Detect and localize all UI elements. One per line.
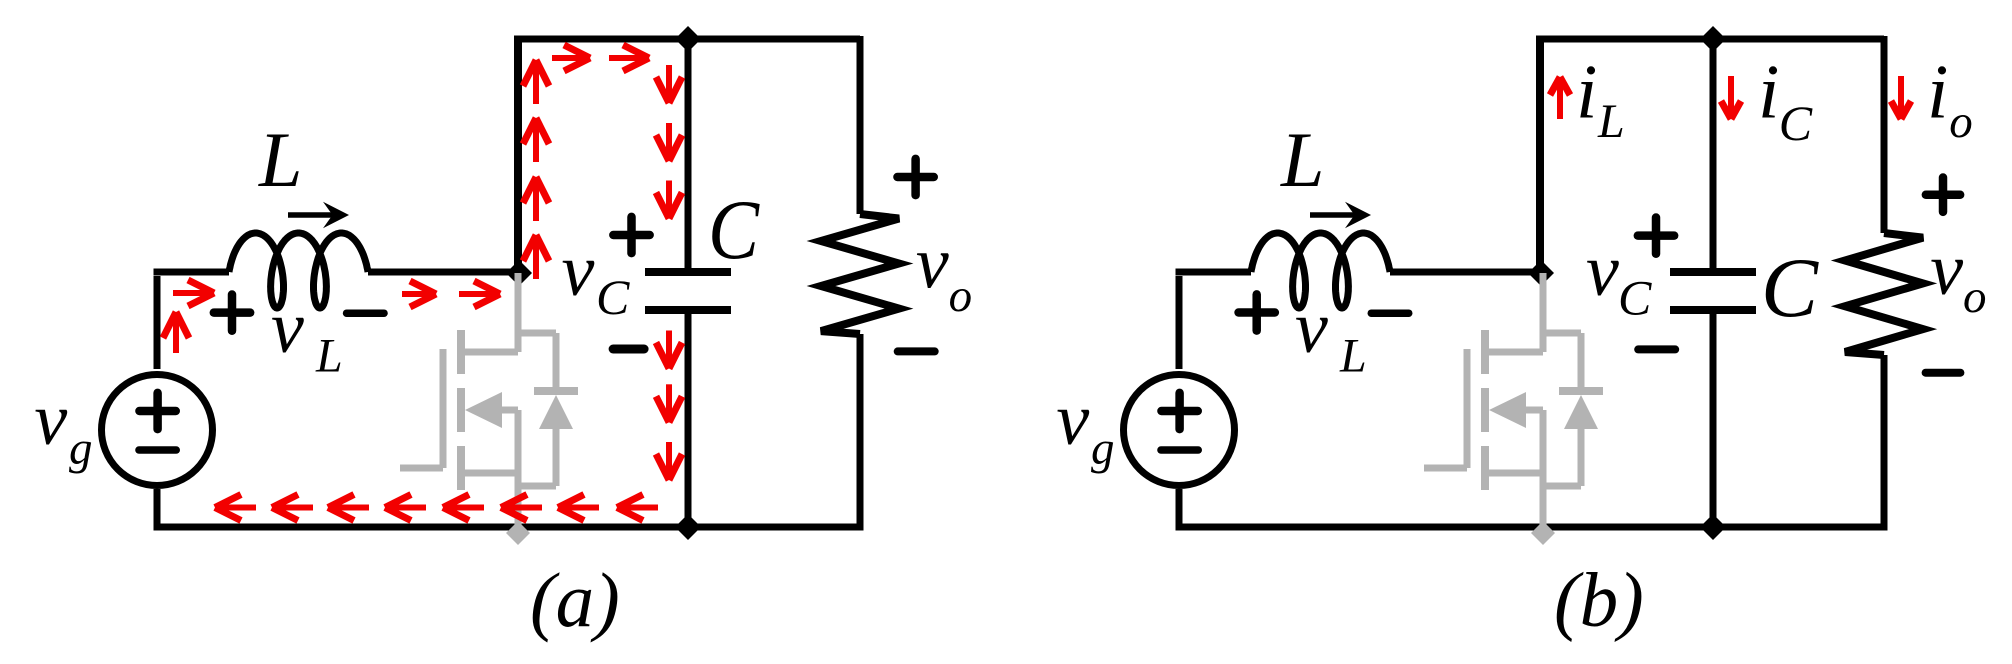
wire resistor bottom (b)	[1881, 355, 1888, 530]
MOSFET Q1 (b) body arrow	[1489, 392, 1526, 428]
red arrow right after inductor 2	[459, 291, 500, 297]
wire vg bottom (b)	[1176, 489, 1183, 527]
svg-text:v: v	[562, 230, 595, 312]
svg-text:(b): (b)	[1554, 557, 1644, 643]
svg-text:C: C	[596, 269, 630, 325]
red arrow left bottom 8	[617, 505, 658, 511]
wire node up to top	[514, 40, 522, 276]
MOSFET Q1 source node (gray diamond)	[506, 521, 530, 545]
MOSFET Q1 body diode cathode bar	[534, 387, 578, 395]
red arrow right after inductor 1	[402, 291, 436, 297]
wire top-left horizontal to inductor (b)	[1176, 269, 1252, 276]
red arrow left bottom 3	[328, 505, 369, 511]
svg-text:v: v	[916, 223, 949, 305]
MOSFET Q1 drain lead	[515, 273, 522, 352]
svg-text:o: o	[1949, 96, 1973, 148]
svg-text:v: v	[1930, 229, 1963, 311]
node at inductor/switch junction	[506, 260, 532, 286]
node at bottom capacitor junction	[675, 514, 701, 540]
vg plus sign (b)	[1161, 407, 1197, 416]
red arrow down cap branch 2	[666, 123, 672, 161]
red arrow up riser 1	[533, 60, 539, 104]
label - for vo (a)	[898, 347, 935, 355]
MOSFET Q1 gate bar	[440, 349, 447, 468]
red arrow left bottom 1	[215, 505, 256, 511]
MOSFET Q1 (b) gate bar	[1464, 349, 1471, 468]
red arrow up riser 4	[533, 235, 539, 279]
inductor current arrow	[288, 212, 335, 218]
svg-text:C: C	[1761, 241, 1819, 335]
svg-text:(a): (a)	[530, 557, 620, 643]
red arrow left bottom 6	[501, 505, 542, 511]
wire capacitor bottom (b)	[1710, 310, 1717, 527]
MOSFET Q1 (b) gate lead	[1424, 465, 1467, 472]
red arrow io	[1898, 76, 1904, 119]
capacitor C bottom plate	[645, 306, 731, 314]
node at bottom capacitor junction (b)	[1700, 514, 1726, 540]
label + for vo (a)	[897, 173, 933, 182]
svg-text:C: C	[708, 183, 760, 277]
label - for vL (b)	[1371, 309, 1409, 317]
wire resistor bottom	[857, 334, 864, 530]
inductor L coil (b)	[1251, 233, 1390, 308]
svg-text:o: o	[949, 270, 973, 322]
MOSFET Q1 (b) source node (gray diamond)	[1531, 521, 1555, 545]
red arrow up riser 3	[533, 177, 539, 221]
red arrow left bottom 2	[272, 505, 313, 511]
red arrow iC	[1728, 76, 1734, 119]
wire inductor to node	[368, 269, 521, 276]
red arrow down cap branch 4	[666, 331, 672, 369]
label + for vL	[214, 308, 250, 317]
svg-text:C: C	[1618, 270, 1652, 326]
MOSFET Q1 body diode branch	[518, 330, 556, 337]
red arrow up riser 2	[533, 118, 539, 162]
label + for vC	[613, 231, 649, 240]
MOSFET Q1 (b) body diode cathode bar	[1559, 387, 1603, 395]
red arrow down cap branch 1	[666, 65, 672, 103]
svg-text:C: C	[1779, 95, 1813, 151]
svg-text:i: i	[1758, 49, 1779, 135]
label + for vL (b)	[1239, 308, 1275, 317]
red arrow iL	[1557, 77, 1563, 119]
svg-text:L: L	[315, 330, 343, 383]
wire inductor to node (b)	[1390, 269, 1543, 276]
vg minus sign (b)	[1161, 446, 1198, 454]
red arrow down cap branch 6	[666, 442, 672, 480]
red arrow up left wire	[173, 312, 179, 353]
MOSFET Q1 source lead	[461, 470, 518, 477]
MOSFET Q1 channel bar (3 dashes)	[457, 330, 465, 374]
vg plus sign	[139, 407, 175, 416]
wire bottom horizontal (a)	[154, 524, 864, 531]
MOSFET Q1 gate lead	[400, 465, 443, 472]
svg-text:L: L	[1280, 116, 1324, 203]
svg-text:v: v	[1295, 287, 1328, 369]
load resistor (b)	[1845, 233, 1923, 355]
MOSFET Q1 (b) source lead	[1485, 470, 1543, 477]
label - for vL	[347, 309, 385, 317]
circuit (a) voltage source vg circle	[102, 375, 213, 486]
node at top capacitor junction (b)	[1700, 26, 1726, 52]
svg-text:L: L	[258, 116, 302, 203]
label - for vC (b)	[1638, 345, 1675, 353]
red arrow right top 1	[552, 55, 590, 61]
vg minus sign	[139, 446, 176, 454]
red arrow left bottom 7	[558, 505, 599, 511]
circuit (b) voltage source vg circle	[1124, 375, 1235, 486]
red arrow right at top-left corner	[173, 290, 214, 296]
wire node up to top (b)	[1536, 40, 1544, 276]
wire vg top to inductor level	[154, 276, 161, 369]
MOSFET Q1 body diode lower lead	[553, 427, 560, 486]
inductor current arrow (b)	[1310, 212, 1357, 218]
wire top horizontal (b)	[1536, 36, 1884, 43]
MOSFET Q1 (b) drain lead	[1540, 273, 1547, 352]
label - for vo (b)	[1926, 369, 1961, 377]
MOSFET Q1 body diode triangle	[539, 395, 573, 429]
svg-text:L: L	[1597, 95, 1625, 148]
svg-text:g: g	[1091, 423, 1115, 475]
node at top capacitor junction	[675, 26, 701, 52]
svg-text:v: v	[34, 379, 67, 461]
red arrow down cap branch 3	[666, 181, 672, 219]
capacitor C bottom plate (b)	[1670, 306, 1756, 314]
red arrow down cap branch 5	[666, 384, 672, 422]
MOSFET Q1 (b) body diode lower lead	[1578, 427, 1585, 486]
svg-text:o: o	[1963, 271, 1987, 323]
load resistor (a)	[821, 214, 899, 334]
label + for vo (b)	[1926, 190, 1960, 199]
svg-text:i: i	[1927, 49, 1948, 135]
MOSFET Q1 (b) channel bar (3 dashes)	[1481, 330, 1489, 374]
red arrow left bottom 4	[385, 505, 426, 511]
svg-text:g: g	[69, 423, 93, 475]
wire vg top to inductor level (b)	[1176, 276, 1183, 369]
capacitor C top plate	[645, 268, 731, 276]
MOSFET Q1 body arrow	[465, 392, 502, 428]
red arrow left bottom 5	[443, 505, 484, 511]
wire top-left horizontal to inductor	[154, 269, 230, 276]
wire top horizontal	[514, 36, 860, 43]
label + for vC (b)	[1638, 231, 1674, 240]
wire bottom horizontal (b)	[1176, 524, 1888, 531]
MOSFET Q1 (b) body diode triangle	[1564, 395, 1598, 429]
wire resistor top	[857, 36, 864, 214]
svg-text:v: v	[1586, 230, 1619, 312]
wire capacitor bottom	[685, 310, 692, 527]
capacitor C top plate (b)	[1670, 268, 1756, 276]
svg-text:v: v	[1056, 379, 1089, 461]
svg-text:L: L	[1339, 330, 1367, 383]
inductor L coil	[229, 233, 368, 308]
red arrow right top 2	[609, 55, 649, 61]
node at inductor/switch junction (b)	[1528, 260, 1554, 286]
MOSFET Q1 (b) body diode branch	[1543, 330, 1581, 337]
wire capacitor top	[685, 39, 692, 272]
svg-text:v: v	[271, 287, 304, 369]
label - for vC	[613, 345, 644, 354]
wire capacitor top (b)	[1710, 39, 1717, 272]
wire vg bottom	[154, 489, 161, 527]
wire resistor top (b)	[1881, 36, 1888, 233]
svg-text:i: i	[1576, 49, 1597, 135]
